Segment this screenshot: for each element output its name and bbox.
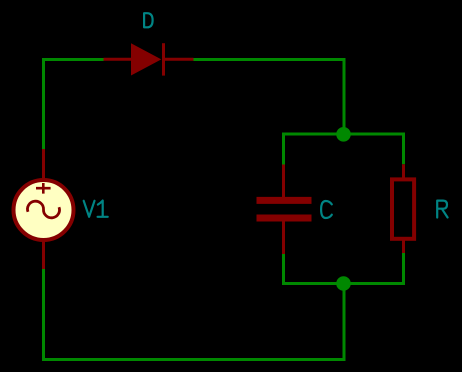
D pin left (anode) <box>104 58 133 61</box>
V1 pin top <box>42 149 45 182</box>
wire: top horizontal right of diode <box>194 58 346 61</box>
wire: left vertical (bottom segment, V1 to bottom-left corner) <box>42 269 45 361</box>
wire: right vertical down to top junction <box>343 58 346 134</box>
D pin right (cathode) <box>163 58 194 61</box>
label C <box>321 201 332 218</box>
junction top (node between D, C, R) <box>336 127 351 142</box>
label R <box>437 201 447 218</box>
label V1 <box>84 201 108 217</box>
wire: top horizontal left of diode <box>42 58 104 61</box>
voltage source V1 <box>14 149 74 269</box>
V1 sine symbol <box>28 201 60 218</box>
junction bottom (node between C, R, V1 return) <box>336 276 351 291</box>
wire: bottom rail of parallel section <box>284 253 404 284</box>
C bottom plate <box>257 215 312 222</box>
V1 pin bottom <box>42 238 45 269</box>
C pin top <box>282 165 285 199</box>
R body rectangle <box>392 179 414 238</box>
R pin top <box>402 164 405 180</box>
wire: right vertical from bottom junction down <box>343 284 346 362</box>
C top plate <box>257 197 312 204</box>
wire: left vertical (top segment, V1 to top-left corner) <box>42 60 45 150</box>
wire: top rail of parallel section (cap branch to R branch) <box>284 134 404 165</box>
D triangle (anode) <box>131 43 161 75</box>
diode D <box>104 43 194 75</box>
D cathode bar <box>162 43 165 75</box>
resistor R <box>392 164 414 253</box>
wire: bottom horizontal <box>42 358 346 361</box>
V1 body circle <box>14 180 74 240</box>
V1 plus sign <box>36 183 51 194</box>
R pin bottom <box>402 238 405 253</box>
label D <box>144 13 153 27</box>
C pin bottom <box>282 220 285 254</box>
capacitor C <box>257 165 312 255</box>
